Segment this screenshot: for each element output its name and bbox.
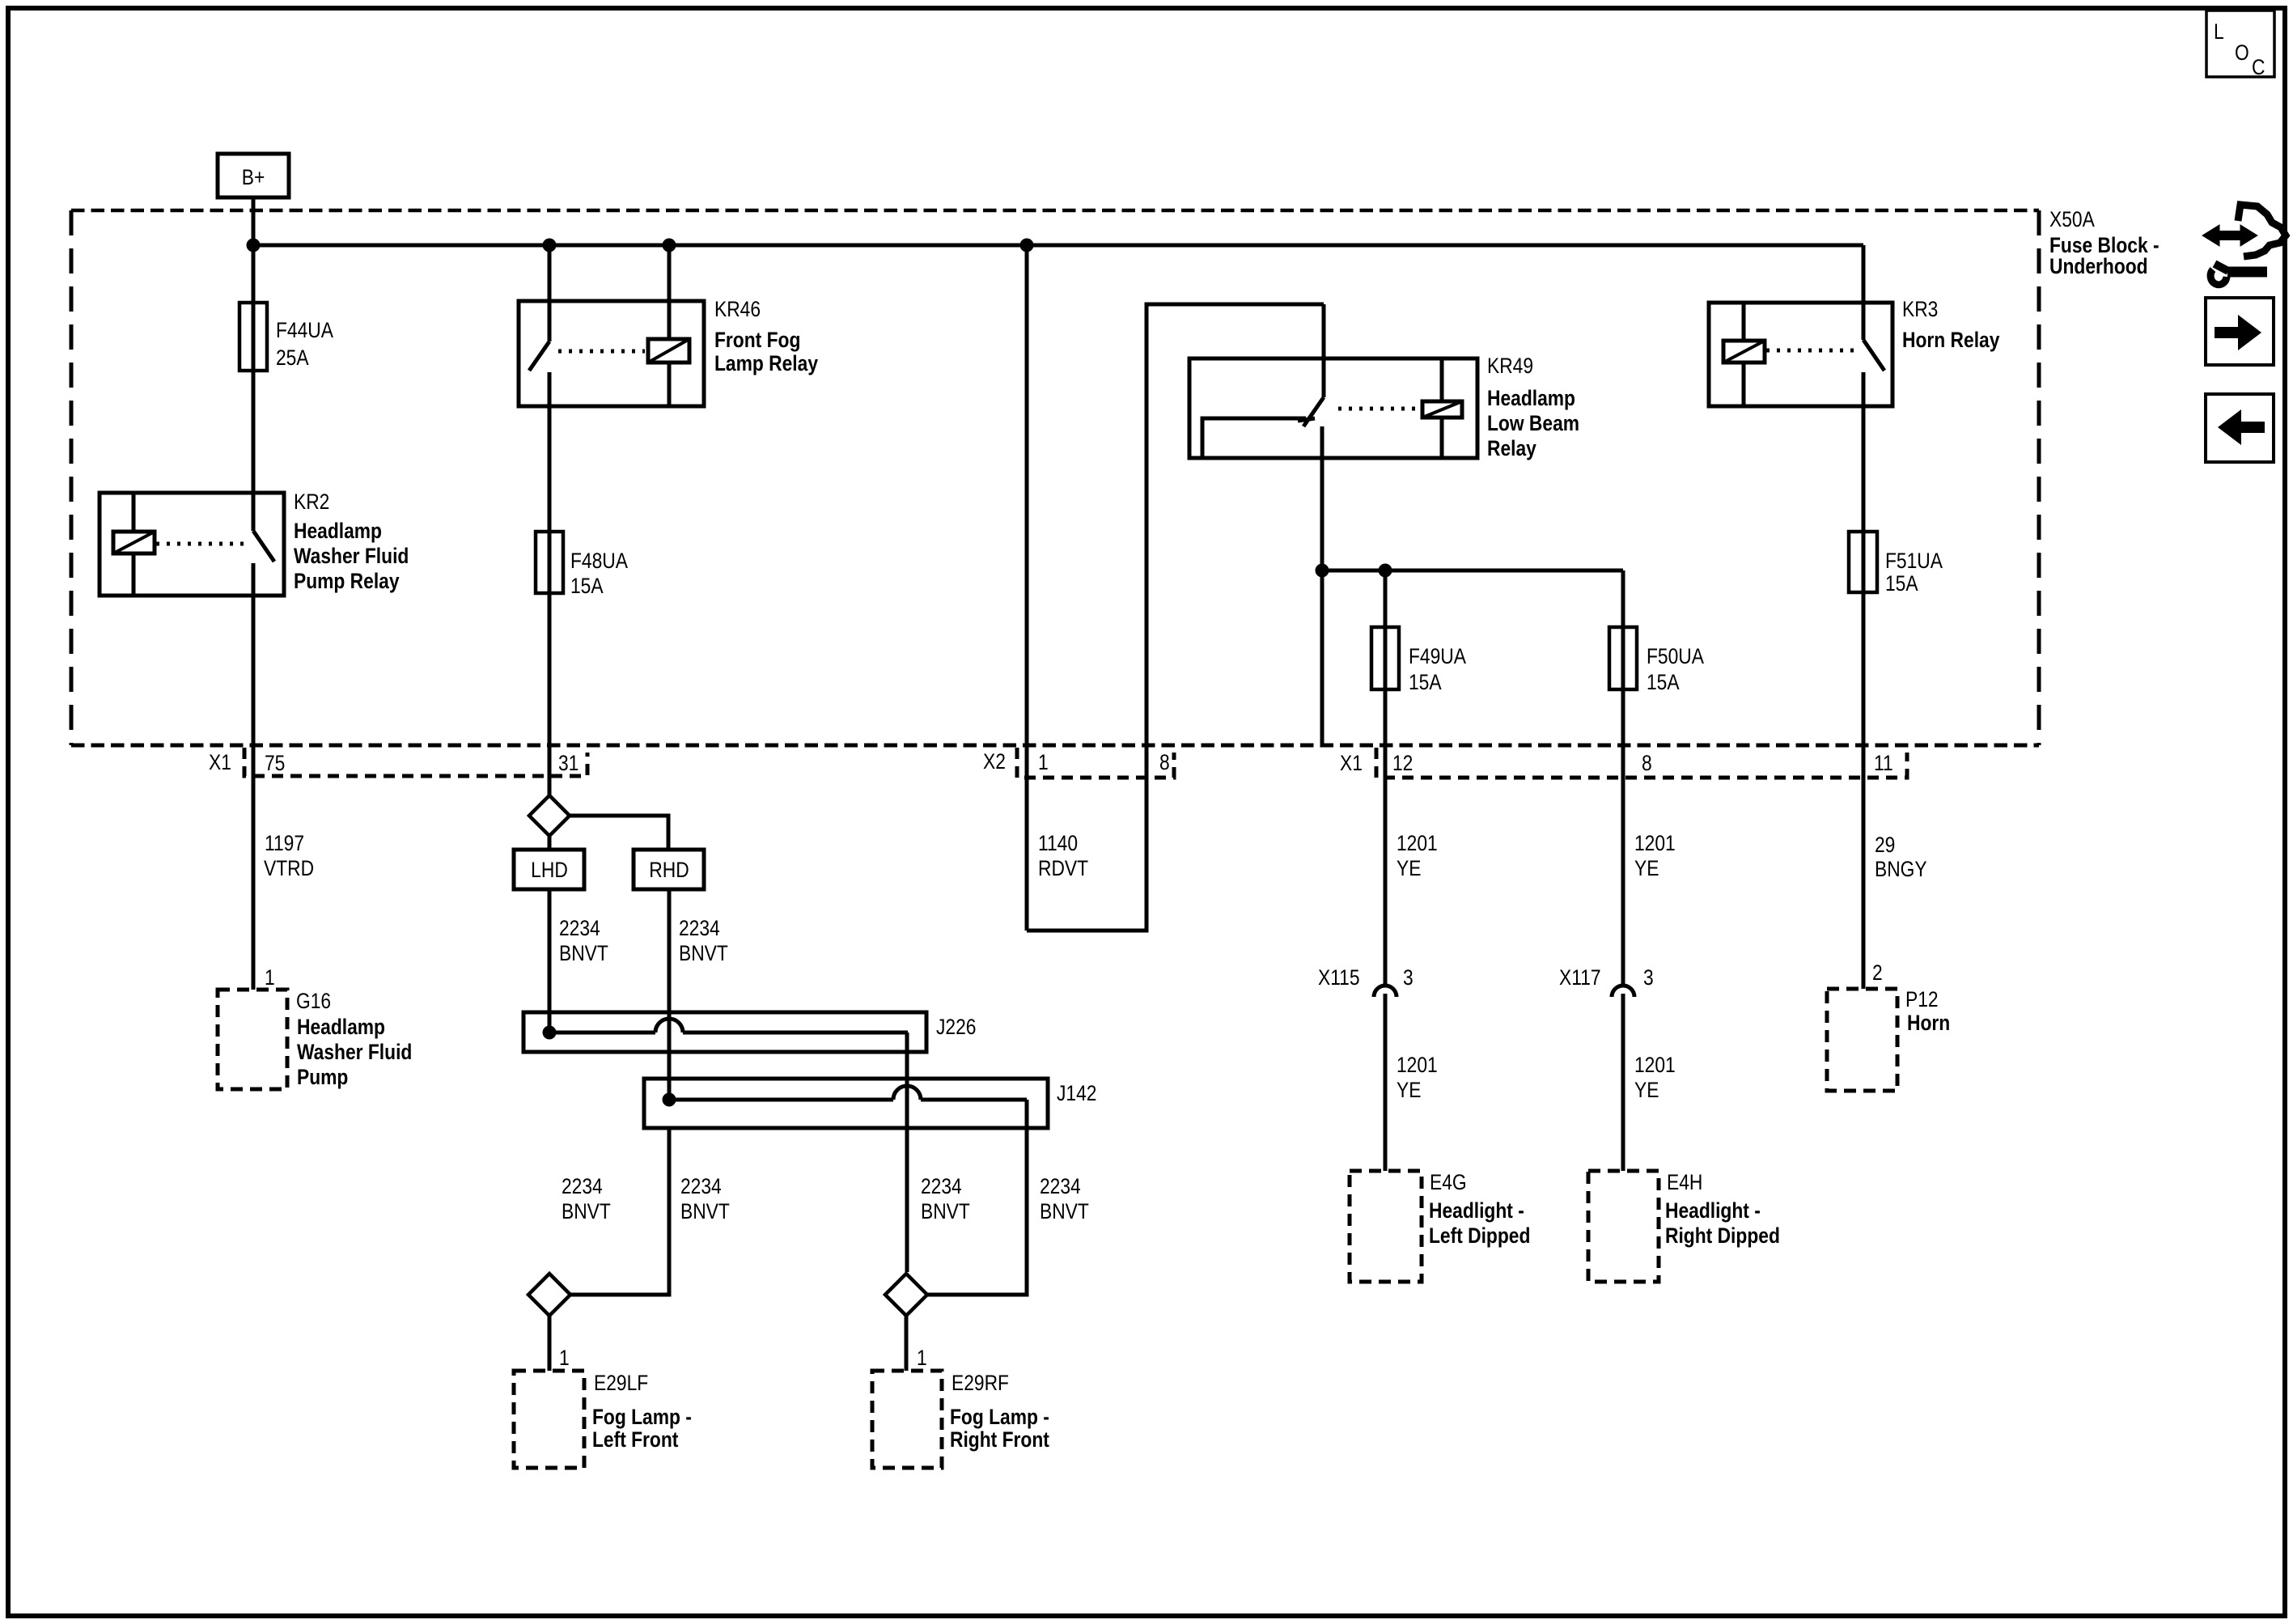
wire KR49 output: [1320, 458, 1325, 745]
svg-text:1201: 1201: [1397, 1053, 1438, 1077]
svg-text:29: 29: [1875, 833, 1895, 857]
svg-text:8: 8: [1159, 750, 1170, 774]
B+ terminal: [218, 154, 289, 197]
svg-text:Fog Lamp -: Fog Lamp -: [950, 1405, 1049, 1429]
splice diamond left fog: [528, 1274, 570, 1316]
wire KR49 feed split: [1322, 569, 1623, 573]
G16 labels: [296, 989, 412, 1089]
svg-text:1201: 1201: [1397, 831, 1438, 855]
wire 2234 BNVT label col1: [562, 1174, 611, 1223]
svg-text:Front Fog: Front Fog: [714, 328, 800, 352]
svg-text:Fog Lamp -: Fog Lamp -: [592, 1405, 692, 1429]
fuse F51UA: [1849, 532, 1877, 592]
KR49 labels: [1487, 354, 1579, 460]
svg-text:BNVT: BNVT: [562, 1199, 611, 1223]
component E29RF dashed box: [872, 1371, 942, 1468]
wire F50UA to X117: [1621, 689, 1625, 986]
svg-text:E29RF: E29RF: [952, 1371, 1009, 1395]
svg-text:15A: 15A: [1409, 670, 1442, 694]
splice diamond right fog: [885, 1274, 927, 1316]
svg-text:O: O: [2235, 40, 2249, 65]
svg-text:L: L: [2214, 19, 2224, 44]
node split left: [1316, 564, 1329, 578]
svg-text:F48UA: F48UA: [570, 549, 628, 573]
svg-text:Headlamp: Headlamp: [297, 1015, 385, 1039]
svg-text:15A: 15A: [1647, 670, 1680, 694]
svg-text:2234: 2234: [562, 1174, 603, 1198]
fuse block X50A dashed outline: [71, 210, 2039, 745]
relay KR49: [1189, 304, 1477, 458]
fuse F48UA: [536, 532, 563, 593]
wire diamond to E29LF: [548, 1316, 552, 1371]
svg-text:Left Front: Left Front: [592, 1427, 679, 1452]
wire to F49UA: [1384, 570, 1388, 627]
svg-text:BNVT: BNVT: [680, 1199, 730, 1223]
svg-text:BNVT: BNVT: [1040, 1199, 1089, 1223]
wire F49UA to X115: [1384, 689, 1388, 986]
svg-text:1: 1: [559, 1346, 570, 1370]
P12 labels: [1905, 987, 1950, 1035]
fuse F50UA: [1609, 627, 1637, 689]
svg-text:15A: 15A: [1885, 571, 1918, 596]
node bus X2: [1020, 239, 1034, 252]
svg-text:KR3: KR3: [1902, 297, 1938, 321]
svg-text:J142: J142: [1057, 1081, 1096, 1105]
svg-text:C: C: [2252, 55, 2265, 79]
svg-text:X117: X117: [1559, 965, 1601, 990]
wire 2234 BNVT label col2: [680, 1174, 730, 1223]
svg-text:VTRD: VTRD: [264, 856, 314, 880]
wire KR46 to F48UA: [548, 406, 552, 532]
svg-text:Headlamp: Headlamp: [1487, 386, 1575, 410]
relay KR2: [100, 493, 284, 596]
svg-text:2234: 2234: [680, 1174, 722, 1198]
wire bus to KR46 coil: [668, 245, 672, 301]
connector X1 bracket right: [1376, 748, 1907, 778]
E29RF labels: [950, 1371, 1049, 1452]
svg-text:X115: X115: [1318, 965, 1360, 990]
svg-text:1197: 1197: [265, 831, 304, 855]
wire F44UA to KR2: [252, 371, 256, 493]
F49UA value label: [1409, 644, 1466, 694]
svg-text:F49UA: F49UA: [1409, 644, 1466, 668]
X50A fuse block labels: [2049, 207, 2159, 278]
svg-text:RDVT: RDVT: [1038, 856, 1088, 880]
svg-text:1: 1: [265, 965, 275, 990]
svg-text:F44UA: F44UA: [276, 318, 333, 342]
splice diamond top: [529, 795, 570, 836]
svg-text:Headlight -: Headlight -: [1665, 1198, 1761, 1223]
svg-text:15A: 15A: [570, 574, 604, 598]
connector X115: [1374, 986, 1397, 997]
svg-text:X50A: X50A: [2049, 207, 2095, 231]
F50UA value label: [1647, 644, 1704, 694]
component P12 dashed box: [1827, 989, 1897, 1091]
wire RHD down: [668, 889, 672, 1100]
option box LHD: [514, 850, 584, 889]
svg-text:1140: 1140: [1038, 831, 1078, 855]
svg-text:Left Dipped: Left Dipped: [1429, 1223, 1530, 1248]
component E4G dashed box: [1350, 1171, 1422, 1282]
svg-text:BNVT: BNVT: [559, 941, 608, 965]
node at B+ bus: [247, 239, 261, 252]
wire B+ drop: [252, 197, 256, 303]
splice J226: [523, 1012, 926, 1052]
node split F49UA: [1379, 564, 1392, 578]
LOC box: [2206, 11, 2274, 79]
wire bus to KR46 switch: [548, 245, 552, 301]
component E29LF dashed box: [514, 1371, 584, 1468]
wire X117 to E4H: [1621, 994, 1625, 1171]
svg-text:Horn: Horn: [1907, 1011, 1950, 1035]
svg-text:Right Dipped: Right Dipped: [1665, 1223, 1780, 1248]
svg-text:YE: YE: [1634, 1078, 1659, 1102]
E29LF labels: [592, 1371, 692, 1452]
KR2 labels: [294, 490, 409, 593]
node bus KR46 coil: [663, 239, 676, 252]
wire F48UA to diamond: [548, 593, 552, 795]
svg-text:12: 12: [1392, 751, 1413, 775]
component E4H dashed box: [1588, 1171, 1659, 1282]
F44UA value label: [276, 318, 333, 370]
wire RHD to left diamond: [570, 1128, 669, 1295]
wire 1201 YE label left upper: [1397, 831, 1438, 880]
connector X1 bracket left: [244, 748, 587, 776]
svg-text:Horn Relay: Horn Relay: [1902, 328, 1999, 352]
wire X115 to E4G: [1384, 994, 1388, 1171]
wire X2-1 1140 RDVT down: [1025, 245, 1029, 931]
svg-text:X1: X1: [1340, 751, 1363, 775]
svg-text:KR2: KR2: [294, 490, 329, 514]
wire to F50UA: [1621, 570, 1625, 627]
svg-text:BNVT: BNVT: [921, 1199, 970, 1223]
hotlink squiggle icon: [2202, 205, 2286, 285]
svg-text:25A: 25A: [276, 346, 309, 370]
connector X2 bracket: [1017, 748, 1174, 778]
svg-text:B+: B+: [242, 165, 265, 189]
wire F51UA to P12: [1862, 592, 1866, 989]
node bus KR46 switch: [543, 239, 557, 252]
svg-text:1: 1: [1038, 750, 1049, 774]
svg-text:Washer Fluid: Washer Fluid: [297, 1040, 412, 1064]
svg-text:F51UA: F51UA: [1885, 549, 1943, 573]
svg-text:2234: 2234: [679, 916, 720, 940]
svg-text:Headlight -: Headlight -: [1429, 1198, 1524, 1223]
wire KR3 to F51UA: [1862, 406, 1866, 532]
svg-text:3: 3: [1403, 965, 1414, 990]
wire 1197 VTRD label: [264, 831, 314, 880]
svg-text:KR49: KR49: [1487, 354, 1533, 378]
svg-text:1201: 1201: [1634, 1053, 1676, 1077]
wire 2234 BNVT label RHD: [679, 916, 728, 965]
svg-text:YE: YE: [1397, 1078, 1421, 1102]
wire KR2 to X1-75: [252, 596, 256, 990]
top power bus wire: [253, 244, 1863, 248]
svg-text:Right Front: Right Front: [950, 1427, 1049, 1452]
svg-text:F50UA: F50UA: [1647, 644, 1704, 668]
wire diamond to RHD branch: [570, 816, 668, 850]
svg-text:2234: 2234: [1040, 1174, 1081, 1198]
svg-text:E4H: E4H: [1667, 1170, 1702, 1194]
component G16 dashed box: [218, 990, 287, 1089]
svg-text:BNVT: BNVT: [679, 941, 728, 965]
splice J142: [644, 1079, 1048, 1128]
svg-text:31: 31: [558, 751, 579, 775]
connector X117: [1612, 986, 1634, 997]
svg-text:X1: X1: [209, 750, 231, 774]
svg-text:Relay: Relay: [1487, 436, 1536, 460]
node J226 LHD: [543, 1026, 557, 1040]
svg-text:1201: 1201: [1634, 831, 1676, 855]
svg-text:Pump: Pump: [297, 1065, 348, 1089]
wire 2234 BNVT label LHD: [559, 916, 608, 965]
svg-text:2234: 2234: [921, 1174, 962, 1198]
fuse F44UA: [239, 303, 267, 371]
svg-text:E29LF: E29LF: [594, 1371, 648, 1395]
wire 1201 YE label right lower: [1634, 1053, 1676, 1102]
F48UA value label: [570, 549, 628, 598]
E4H labels: [1665, 1170, 1780, 1248]
wire J142 drop: [927, 1100, 1027, 1295]
wire diamond to E29RF: [905, 1316, 909, 1371]
E4G labels: [1429, 1170, 1530, 1248]
forward arrow icon: [2206, 298, 2274, 365]
svg-text:1: 1: [917, 1346, 927, 1370]
F51UA value label: [1885, 549, 1943, 596]
svg-text:G16: G16: [296, 989, 331, 1013]
svg-text:3: 3: [1643, 965, 1654, 990]
wire LHD to J226: [548, 889, 552, 1032]
node J142 RHD: [663, 1093, 676, 1107]
svg-text:11: 11: [1874, 751, 1893, 775]
KR3 labels: [1902, 297, 1999, 352]
KR46 labels: [714, 297, 818, 375]
fuse F49UA: [1371, 627, 1399, 689]
wire 2234 BNVT label col3: [921, 1174, 970, 1223]
svg-text:75: 75: [265, 751, 285, 775]
svg-text:X2: X2: [983, 749, 1006, 774]
svg-text:Pump Relay: Pump Relay: [294, 569, 400, 593]
wire 1201 YE label left lower: [1397, 1053, 1438, 1102]
wire 1140 RDVT label: [1038, 831, 1088, 880]
svg-text:YE: YE: [1397, 856, 1421, 880]
svg-text:8: 8: [1642, 751, 1652, 775]
svg-text:2: 2: [1872, 960, 1883, 985]
wire diamond to LHD: [548, 836, 552, 850]
wire 29 BNGY label: [1875, 833, 1927, 881]
svg-text:BNGY: BNGY: [1875, 857, 1927, 881]
wire RDVT u-turn: [1027, 304, 1324, 931]
wire 2234 BNVT label col4: [1040, 1174, 1089, 1223]
option box RHD: [634, 850, 704, 889]
relay KR3: [1709, 303, 1892, 406]
svg-text:Washer Fluid: Washer Fluid: [294, 544, 409, 568]
svg-text:Headlamp: Headlamp: [294, 519, 382, 543]
svg-text:2234: 2234: [559, 916, 600, 940]
svg-text:YE: YE: [1634, 856, 1659, 880]
svg-text:RHD: RHD: [649, 858, 689, 882]
svg-text:P12: P12: [1905, 987, 1939, 1011]
svg-text:KR46: KR46: [714, 297, 761, 321]
svg-text:LHD: LHD: [531, 858, 568, 882]
back arrow icon: [2206, 394, 2274, 462]
wire 1201 YE label right upper: [1634, 831, 1676, 880]
relay KR46: [519, 301, 704, 406]
svg-text:Underhood: Underhood: [2049, 254, 2148, 278]
svg-text:Lamp Relay: Lamp Relay: [714, 351, 818, 375]
wire J226 drop: [905, 1032, 909, 1272]
wire bus to KR3: [1862, 245, 1866, 303]
svg-text:E4G: E4G: [1430, 1170, 1467, 1194]
svg-text:Low Beam: Low Beam: [1487, 411, 1579, 435]
svg-text:J226: J226: [936, 1015, 976, 1039]
